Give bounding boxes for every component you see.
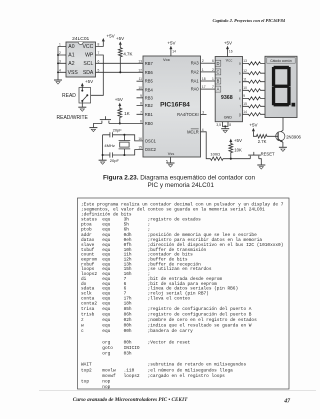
svg-text:RA2: RA2 [191, 69, 200, 74]
svg-text:10: 10 [243, 86, 247, 90]
wire WP pin7 down to READ switch [91, 55, 104, 95]
svg-text:;definición de bits: ;definición de bits [81, 212, 132, 218]
pushbutton S3 RESET [248, 152, 275, 165]
svg-text:3: 3 [59, 59, 61, 63]
wire RA2 to C [201, 68, 216, 72]
svg-text:WP: WP [85, 53, 94, 59]
wire OSC1 net [124, 135, 143, 141]
svg-text:A: A [217, 87, 220, 92]
svg-text:8: 8 [229, 123, 231, 127]
svg-text:RESET: RESET [261, 152, 275, 157]
footer book title [73, 397, 188, 403]
svg-text:C: C [217, 70, 220, 75]
code listing text [81, 201, 284, 390]
wire RA0 to A [201, 85, 216, 89]
9368 input pin boxes D C B A [215, 60, 221, 92]
svg-text:A1: A1 [68, 53, 74, 59]
ground at pushbutton [89, 128, 97, 132]
pushbutton S2 (count) [100, 116, 111, 123]
wire switch bottom throw to ground [81, 101, 83, 107]
svg-text:Curso avanzado de Microcontrol: Curso avanzado de Microcontroladores PIC… [73, 397, 188, 403]
node R1 to SDA [119, 71, 121, 73]
svg-text:top2 movlw .110 ;el n: top2 movlw .110 ;el número de milisegund… [81, 367, 233, 373]
wire VCC pin8 to +5V [96, 41, 104, 46]
svg-text:4: 4 [202, 128, 204, 132]
svg-text:PIC y memoria 24LC01: PIC y memoria 24LC01 [147, 182, 214, 189]
7-segment digit 8 with dp [272, 66, 295, 107]
display DS1 7-segment common cathode [265, 56, 297, 117]
svg-text:100Ω: 100Ω [210, 151, 220, 156]
svg-text:1: 1 [202, 68, 204, 72]
crystal X1 4MHz [104, 135, 130, 155]
svg-text:RB4: RB4 [145, 87, 154, 92]
svg-text:c equ 00h ;band: c equ 00h ;bandera de carry [81, 328, 193, 334]
label READ [62, 93, 76, 99]
node bottom of crystal [123, 154, 125, 156]
capacitor C2 20pF (bottom) [103, 152, 125, 163]
svg-text:47: 47 [283, 398, 291, 404]
wire SDA net (RB6) [96, 71, 144, 73]
resistor R2 1K (vertical zigzag) [118, 106, 130, 123]
resistor R11 2.7K base resistor [253, 131, 278, 144]
IC U2 24LC01 EEPROM body [66, 36, 96, 77]
svg-text:10K: 10K [234, 148, 242, 153]
wire RB0 line [93, 122, 143, 124]
svg-text:RB1: RB1 [145, 112, 154, 117]
svg-text:MCLR: MCLR [187, 129, 199, 134]
wire capacitor common rail [102, 135, 104, 160]
svg-text:20pF: 20pF [113, 128, 123, 133]
svg-text:READ/WRITE: READ/WRITE [57, 115, 89, 121]
svg-text:RA1: RA1 [191, 79, 200, 84]
svg-text:WAIT ;subr: WAIT ;subrutina de retardo en milisegund… [81, 362, 246, 368]
resistor R3 100 ohm [210, 151, 250, 160]
svg-text:14: 14 [172, 50, 176, 54]
svg-text:trisa equ 85h ;regi: trisa equ 85h ;registro de configuración… [81, 306, 252, 312]
svg-text:VSS: VSS [68, 70, 79, 76]
9368 segment output labels a-g [239, 62, 241, 117]
svg-text:GND: GND [224, 116, 233, 120]
+5V arrow at 24LC01 VCC [102, 34, 115, 42]
svg-text:RB7: RB7 [145, 61, 154, 66]
footer rule [39, 390, 316, 392]
svg-text:4MHz: 4MHz [104, 143, 114, 148]
svg-text:7: 7 [140, 110, 142, 114]
svg-text:org 03h: org 03h [81, 351, 132, 357]
IC U1 PIC16F84 body [143, 56, 201, 157]
svg-text:+5V: +5V [116, 36, 124, 41]
svg-text:RB6: RB6 [145, 70, 154, 75]
svg-text:+5V: +5V [85, 79, 93, 84]
24LC01 left pin stubs pins 1-4 [58, 42, 66, 72]
svg-text:b: b [239, 72, 241, 76]
svg-text:RA3: RA3 [191, 61, 200, 66]
svg-text:z equ 02h ;nomb: z equ 02h ;nombre de cero en el registro… [81, 317, 257, 323]
svg-text:SDA: SDA [83, 70, 94, 76]
svg-text:17: 17 [202, 85, 206, 89]
svg-text:OSC1: OSC1 [145, 138, 157, 143]
svg-text:5: 5 [98, 68, 100, 72]
svg-text:7: 7 [98, 51, 100, 55]
svg-text:6: 6 [98, 59, 100, 63]
svg-text:OSC2: OSC2 [145, 147, 157, 152]
svg-text:7: 7 [212, 85, 214, 89]
footer page number [283, 398, 291, 404]
svg-text:RB3: RB3 [145, 95, 154, 100]
wire MCLR pin 4 net [201, 128, 211, 159]
wire RA1 to B [201, 77, 216, 81]
svg-text:A2: A2 [68, 61, 74, 67]
svg-text:org 00h ;Vector de re: org 00h ;Vector de reset [81, 339, 191, 345]
svg-text:READ: READ [62, 93, 76, 99]
svg-text:4.7K: 4.7K [123, 52, 132, 57]
ground below 9368 [221, 129, 229, 133]
ground for oscillator caps [99, 160, 107, 164]
svg-text:PIC16F84: PIC16F84 [160, 101, 190, 108]
wire: address pins common rail [57, 46, 59, 80]
node junction R2 / RB0 line [119, 122, 121, 124]
svg-text:+5V: +5V [107, 34, 115, 39]
wire display cathode down to Q1 [278, 118, 283, 134]
svg-text:g: g [239, 113, 241, 117]
svg-text:top nop: top nop [81, 378, 111, 384]
svg-text:+5V: +5V [224, 41, 232, 46]
9368 ground pins 3,5 and 8 [216, 122, 231, 129]
segment resistor network R4-R10 [243, 59, 266, 65]
svg-text:15: 15 [243, 102, 247, 106]
svg-text:13: 13 [138, 59, 142, 63]
ground for 24LC01 address pins [54, 80, 62, 84]
PIC left pin numbers [138, 59, 142, 149]
svg-text:1: 1 [59, 42, 61, 46]
resistor R1 4.7K pull-up [118, 45, 132, 73]
svg-text:15: 15 [138, 146, 142, 150]
svg-text:VSS: VSS [168, 151, 175, 156]
ground at RESET button [257, 165, 265, 169]
svg-text:RA0: RA0 [191, 87, 200, 92]
svg-text:24LC01: 24LC01 [72, 36, 89, 42]
svg-text:6: 6 [212, 59, 214, 63]
svg-text:movwf loops2 ;cargado en e: movwf loops2 ;cargado en el registro loo… [81, 373, 225, 379]
svg-text:e: e [239, 97, 241, 101]
header chapter title [213, 18, 286, 23]
svg-text:12: 12 [138, 68, 142, 72]
svg-text:goto INICIO: goto INICIO [81, 345, 140, 351]
svg-text:Capítulo 2. Proyectos con el P: Capítulo 2. Proyectos con el PIC16F84 [213, 18, 286, 23]
svg-text:nop: nop [81, 385, 111, 390]
svg-text:A0: A0 [68, 44, 74, 50]
svg-text:Cátodo común: Cátodo común [270, 59, 292, 63]
+5V arrow above resistor R11 [249, 122, 257, 131]
IC U3 9368 display driver body [215, 57, 242, 122]
svg-text:+5V: +5V [115, 97, 123, 102]
svg-text:12: 12 [243, 69, 247, 73]
svg-text:ptob equ 6h ;: ptob equ 6h ; [81, 227, 150, 233]
svg-text:16: 16 [138, 137, 142, 141]
svg-text:16: 16 [229, 50, 233, 54]
PIC pin 14 Vdd to +5V [167, 41, 176, 56]
node top of crystal [123, 134, 125, 136]
24LC01 right pin numbers 8,7,6,5 [98, 42, 100, 72]
svg-text:conta2 equ 18h: conta2 equ 18h [81, 300, 132, 306]
svg-text:w equ 00h ;indi: w equ 00h ;indica que el resultado se gu… [81, 323, 252, 329]
ground below READ switch [78, 107, 86, 111]
ground at Q1 emitter [279, 147, 287, 151]
svg-text:VCC: VCC [226, 58, 233, 62]
svg-text:2: 2 [202, 59, 204, 63]
+5V arrow above resistor R1 [116, 36, 124, 45]
svg-text:11: 11 [243, 78, 247, 82]
svg-text:RB5: RB5 [145, 79, 154, 84]
label READ/WRITE [57, 115, 89, 121]
svg-text:2: 2 [212, 68, 214, 72]
+5V arrow above resistor R12 [229, 138, 242, 143]
svg-text:B: B [217, 79, 220, 84]
svg-text:d: d [239, 89, 241, 93]
svg-text:+5V: +5V [249, 122, 257, 127]
svg-text:8: 8 [98, 42, 100, 46]
svg-text:a: a [239, 62, 241, 66]
svg-text:9368: 9368 [221, 95, 233, 101]
svg-text:RB0: RB0 [145, 121, 154, 126]
9368 pin 16 Vcc to +5V [224, 41, 233, 57]
wire button left side to ground [92, 123, 94, 127]
PIC pin 5 Vss to ground [166, 157, 171, 163]
wire SCL net (RB7) [96, 62, 144, 64]
capacitor C1 20pF (top) [103, 128, 125, 138]
svg-text:3: 3 [202, 111, 204, 115]
svg-text:trisb equ 86h ;regi: trisb equ 86h ;registro de configuración… [81, 312, 252, 318]
wire OSC2 net [124, 150, 143, 155]
svg-text:2.7K: 2.7K [258, 139, 267, 144]
node MCLR pullup junction [230, 158, 232, 160]
svg-text:;Este programa realiza un cont: ;Este programa realiza un contador decim… [81, 201, 284, 207]
svg-text:11: 11 [139, 77, 143, 81]
svg-text:Figura 2.23. Diagrama esquemát: Figura 2.23. Diagrama esquemático del co… [103, 174, 255, 181]
+5V arrow at READ switch [81, 79, 93, 86]
svg-text:ptoa equ 5h ;: ptoa equ 5h ; [81, 222, 150, 228]
svg-text:2: 2 [59, 51, 61, 55]
PIC unconnected stubs RB5-RB1 [137, 81, 144, 114]
svg-text:D: D [217, 61, 220, 66]
svg-text:+5V: +5V [234, 138, 242, 143]
ground at PIC Vss [167, 163, 175, 167]
wire switch common to +5V [81, 86, 83, 91]
switch S1 READ/WRITE (SPDT in box) [79, 88, 91, 104]
code listing box [78, 198, 290, 389]
svg-text:8: 8 [140, 102, 142, 106]
wire RA3 to D [201, 59, 216, 63]
svg-text:14: 14 [243, 110, 247, 114]
svg-text:20pF: 20pF [110, 158, 120, 163]
svg-text:4: 4 [59, 68, 61, 72]
svg-text:2N3906: 2N3906 [286, 134, 301, 139]
resistor R12 10K pull-up [229, 142, 242, 159]
svg-text:9: 9 [140, 94, 142, 98]
svg-text:RB2: RB2 [145, 103, 154, 108]
svg-text:+5V: +5V [167, 41, 175, 46]
svg-text:1K: 1K [124, 111, 129, 116]
svg-text:10: 10 [138, 86, 142, 90]
svg-text:VDD: VDD [163, 57, 171, 62]
svg-text:9: 9 [243, 94, 245, 98]
svg-text:f: f [240, 105, 241, 109]
svg-text:6: 6 [140, 119, 142, 123]
PIC pin 3 RA4 stub [201, 111, 207, 115]
svg-text:1: 1 [212, 77, 214, 81]
caption Figura 2.23 [103, 174, 255, 189]
svg-text:18: 18 [202, 77, 206, 81]
transistor Q1 2N3906 [276, 132, 302, 148]
+5V arrow above resistor R2 [115, 97, 123, 106]
svg-text:VCC: VCC [83, 44, 94, 50]
svg-text:SCL: SCL [83, 61, 93, 67]
svg-text:RA4/TOCKI: RA4/TOCKI [177, 112, 199, 117]
svg-text:datao equ 0eh ;regi: datao equ 0eh ;registro para escribir da… [81, 237, 262, 243]
svg-text:13: 13 [243, 59, 247, 63]
svg-text:3,5: 3,5 [216, 123, 221, 127]
